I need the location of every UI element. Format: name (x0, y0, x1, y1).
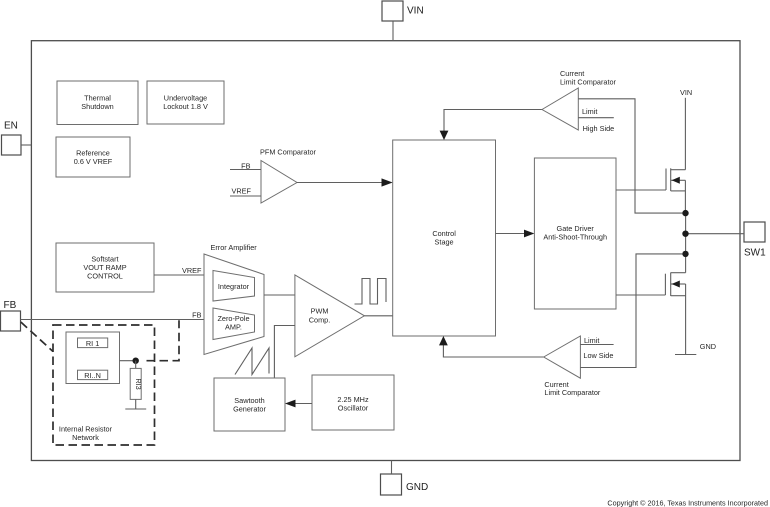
svg-text:VIN: VIN (407, 6, 424, 17)
svg-text:Oscillator: Oscillator (338, 404, 369, 413)
svg-text:FB: FB (241, 162, 250, 171)
comparator U-low current limit (bottom) (544, 336, 601, 397)
svg-text:Network: Network (72, 433, 99, 442)
block Zero-Pole AMP (213, 308, 255, 340)
block Integrator (213, 271, 255, 302)
svg-text:Generator: Generator (233, 405, 266, 414)
svg-text:Limit Comparator: Limit Comparator (560, 78, 617, 87)
wire low-side comparator output into control stage bottom (439, 336, 544, 357)
block Sawtooth Generator (214, 378, 285, 431)
svg-text:VREF: VREF (182, 266, 202, 275)
PWM comparator (295, 275, 365, 357)
wire ladder to tap node (120, 360, 136, 362)
svg-text:PFM Comparator: PFM Comparator (260, 148, 317, 157)
svg-text:SW1: SW1 (744, 248, 766, 259)
node junction dot middle (SW1) (682, 231, 688, 237)
pin VIN (top) (382, 1, 424, 41)
wire bottom comparator sense input from SW node (580, 254, 682, 368)
block Gate Driver Anti-Shoot-Through (534, 158, 616, 309)
text Internal Resistor Network (59, 425, 113, 443)
svg-text:FB: FB (192, 311, 201, 320)
wire oscillator to sawtooth generator (285, 400, 312, 408)
svg-text:Comp.: Comp. (309, 316, 331, 325)
wire VREF input of PFM comparator (230, 187, 261, 197)
ground low-side source (675, 342, 716, 355)
svg-text:Lockout 1.8 V: Lockout 1.8 V (163, 102, 208, 111)
block Reference 0.6 V VREF (56, 137, 130, 177)
block Control Stage (393, 140, 496, 336)
transistor Q2 low-side MOSFET (616, 273, 686, 355)
svg-text:Limit: Limit (584, 336, 599, 345)
wire FB input of PFM comparator (230, 162, 261, 171)
pin FB (left) (1, 300, 21, 331)
svg-text:AMP.: AMP. (225, 323, 242, 332)
wire top comparator limit input (578, 107, 614, 133)
resistor RI 1 (78, 338, 108, 348)
resistor RI..N (78, 370, 108, 380)
svg-text:CONTROL: CONTROL (87, 272, 123, 281)
svg-text:FB: FB (4, 300, 17, 311)
svg-text:Copyright © 2016, Texas Instru: Copyright © 2016, Texas Instruments Inco… (607, 499, 768, 507)
resistor ladder box (66, 332, 120, 384)
comparator U-high current limit (top) (542, 69, 617, 130)
PFM comparator (260, 148, 317, 204)
svg-text:VREF: VREF (232, 187, 252, 196)
svg-text:Anti-Shoot-Through: Anti-Shoot-Through (543, 233, 607, 242)
svg-text:Stage: Stage (435, 238, 454, 247)
svg-text:Limit: Limit (582, 107, 597, 116)
block Softstart VOUT RAMP CONTROL (56, 243, 154, 292)
svg-text:EN: EN (4, 121, 18, 132)
wire PWM comparator output to control stage (364, 315, 392, 317)
wire dashed FB pin to network (21, 322, 53, 352)
wire high-side comparator output into control stage top (440, 110, 542, 141)
node tap junction dot (133, 358, 139, 364)
svg-text:Low Side: Low Side (583, 351, 613, 360)
sawtooth wave symbol (235, 348, 269, 375)
wire VIN to high-side drain (680, 88, 692, 170)
wire dashed network tap to FB line (147, 320, 180, 361)
wire SW node vertical (685, 213, 687, 273)
resistor RI3 (130, 361, 143, 409)
svg-text:RI..N: RI..N (84, 371, 101, 380)
svg-text:High Side: High Side (583, 124, 615, 133)
wire SW node to SW1 pin (686, 233, 744, 235)
wire softstart VREF to error amplifier (154, 266, 204, 275)
square wave symbol (355, 279, 387, 305)
op-amp error amplifier (204, 243, 264, 355)
svg-text:PWM: PWM (311, 307, 329, 316)
svg-text:Shutdown: Shutdown (81, 102, 113, 111)
wire error amplifier output to PWM comparator (264, 294, 295, 296)
wire top comparator sense input from SW node (578, 99, 682, 213)
pin SW1 (right) (744, 222, 766, 259)
node junction dot top (682, 210, 688, 216)
svg-text:RI3: RI3 (134, 378, 143, 389)
svg-text:0.6 V VREF: 0.6 V VREF (74, 157, 113, 166)
node junction dot bottom (682, 251, 688, 257)
svg-text:VIN: VIN (680, 88, 692, 97)
wire control stage to gate driver (496, 230, 535, 238)
pin EN (left) (2, 121, 32, 156)
pin GND (bottom) (381, 461, 429, 496)
outer device border (31, 41, 740, 461)
dashed internal resistor network box (53, 325, 155, 445)
block 2.25 MHz Oscillator (312, 375, 394, 430)
svg-text:GND: GND (406, 482, 428, 493)
block Undervoltage Lockout (147, 81, 224, 124)
wire PFM comparator output to control stage (297, 178, 393, 186)
ground RI3 (125, 408, 146, 410)
svg-text:Limit Comparator: Limit Comparator (544, 388, 601, 397)
svg-text:RI 1: RI 1 (86, 339, 99, 348)
svg-text:Integrator: Integrator (218, 282, 250, 291)
transistor Q1 high-side MOSFET (616, 168, 685, 213)
wire sawtooth generator to PWM comparator (274, 326, 295, 379)
svg-text:Error Amplifier: Error Amplifier (211, 243, 258, 252)
svg-text:GND: GND (700, 342, 716, 351)
block Thermal Shutdown (57, 81, 138, 125)
wire FB pin to error amplifier (21, 311, 205, 320)
wire bottom comparator limit input (580, 336, 613, 360)
